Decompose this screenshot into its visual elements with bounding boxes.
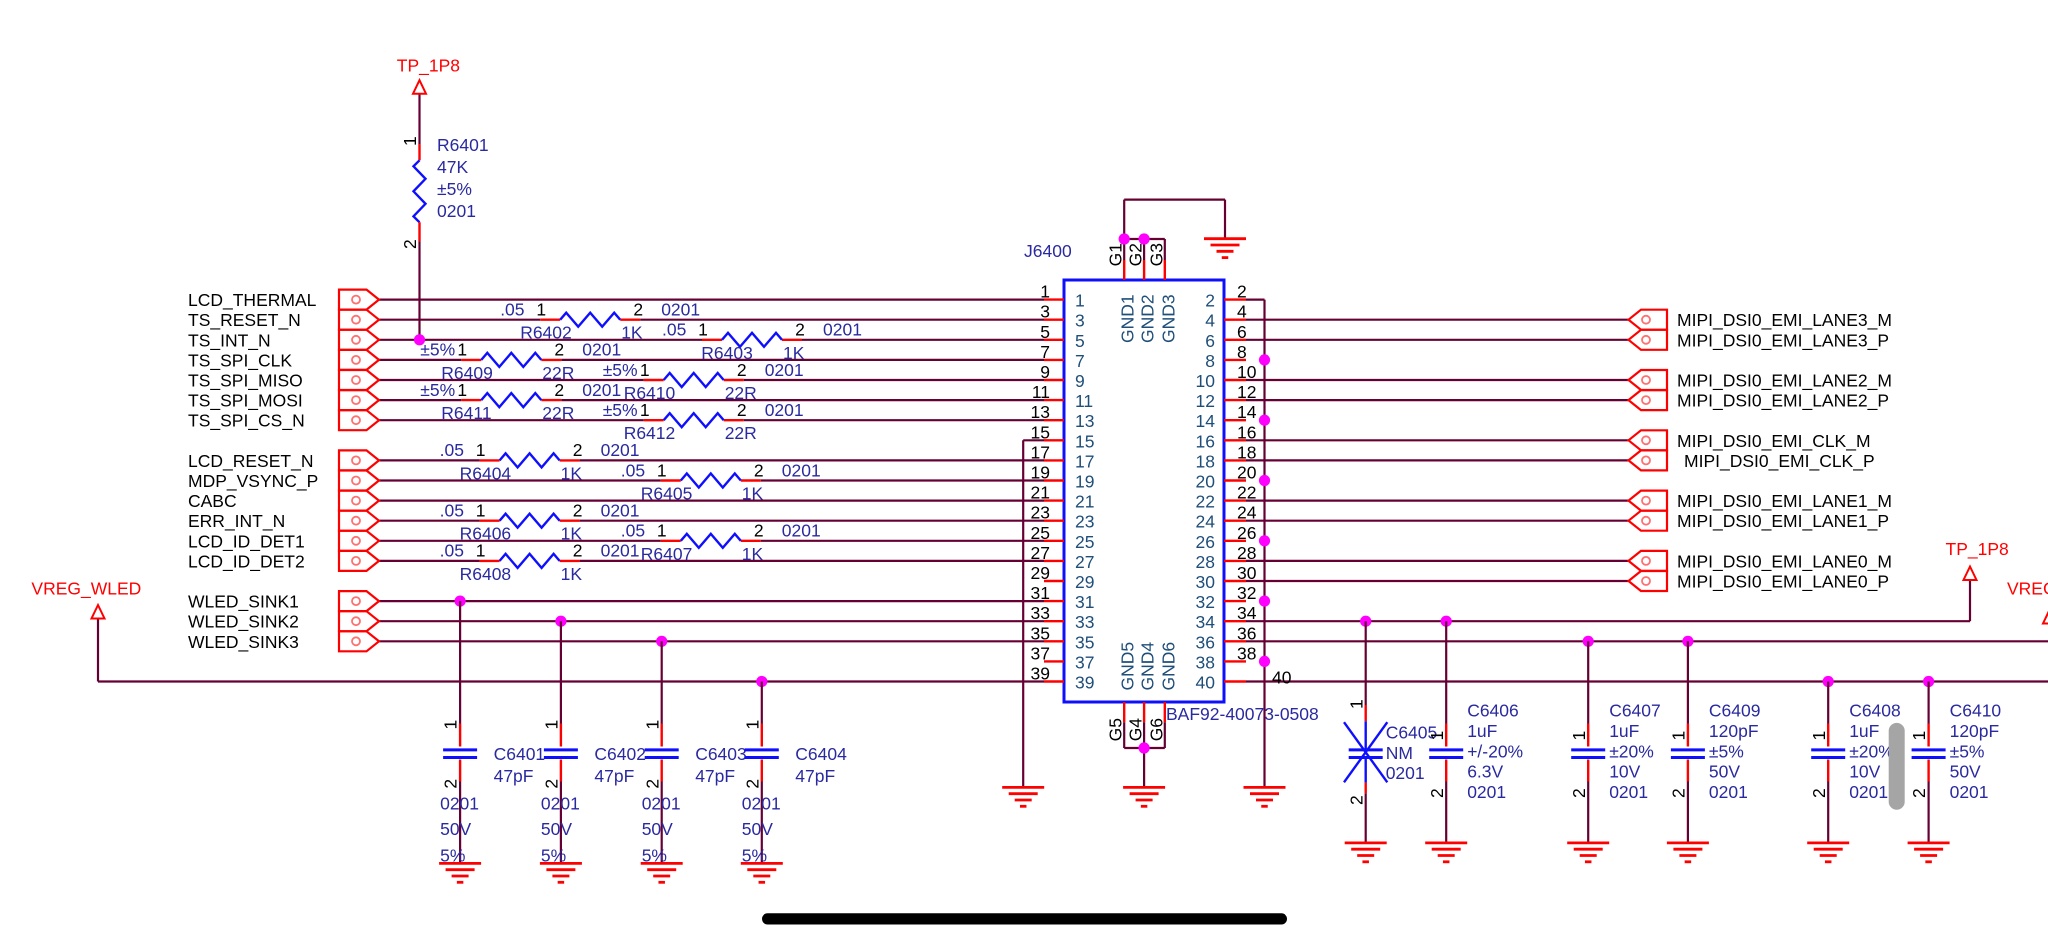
- svg-text:ERR_INT_N: ERR_INT_N: [188, 511, 285, 532]
- svg-text:120pF: 120pF: [1950, 721, 2000, 741]
- svg-text:GND4: GND4: [1138, 642, 1158, 691]
- svg-text:2: 2: [573, 440, 583, 460]
- svg-text:1: 1: [1909, 731, 1929, 741]
- svg-text:2: 2: [542, 779, 562, 789]
- svg-text:TS_SPI_MISO: TS_SPI_MISO: [188, 371, 303, 392]
- svg-text:2: 2: [573, 501, 583, 521]
- svg-text:G3: G3: [1146, 243, 1166, 266]
- svg-text:27: 27: [1075, 552, 1094, 572]
- svg-text:1: 1: [400, 136, 420, 146]
- svg-text:1: 1: [1569, 731, 1589, 741]
- svg-text:2: 2: [737, 400, 747, 420]
- svg-text:0201: 0201: [1386, 763, 1425, 783]
- svg-text:0201: 0201: [437, 201, 476, 221]
- svg-text:.05: .05: [440, 440, 464, 460]
- svg-text:50V: 50V: [642, 819, 673, 839]
- svg-text:5%: 5%: [541, 846, 566, 866]
- svg-text:6: 6: [1205, 331, 1215, 351]
- svg-text:3: 3: [1075, 311, 1085, 331]
- svg-text:38: 38: [1196, 652, 1215, 672]
- svg-text:VREG_WLED: VREG_WLED: [2007, 579, 2048, 600]
- svg-text:0201: 0201: [782, 460, 821, 480]
- svg-text:11: 11: [1075, 391, 1093, 411]
- svg-text:50V: 50V: [1950, 762, 1981, 782]
- svg-text:LCD_ID_DET1: LCD_ID_DET1: [188, 531, 305, 552]
- svg-text:MIPI_DSI0_EMI_LANE1_M: MIPI_DSI0_EMI_LANE1_M: [1677, 491, 1892, 512]
- svg-text:G6: G6: [1146, 718, 1166, 741]
- svg-text:LCD_ID_DET2: LCD_ID_DET2: [188, 551, 305, 572]
- svg-text:22R: 22R: [542, 403, 574, 423]
- svg-text:40: 40: [1272, 668, 1292, 688]
- svg-text:±5%: ±5%: [603, 360, 638, 380]
- svg-text:0201: 0201: [541, 794, 580, 814]
- svg-text:26: 26: [1237, 523, 1256, 543]
- svg-text:1: 1: [1346, 699, 1366, 709]
- svg-text:1: 1: [1040, 282, 1050, 302]
- svg-text:30: 30: [1237, 563, 1257, 583]
- svg-text:32: 32: [1196, 592, 1215, 612]
- svg-text:0201: 0201: [765, 360, 804, 380]
- svg-text:0201: 0201: [1467, 782, 1506, 802]
- svg-text:50V: 50V: [1709, 762, 1740, 782]
- svg-text:+/-20%: +/-20%: [1467, 741, 1523, 761]
- svg-text:G2: G2: [1126, 243, 1146, 266]
- svg-text:25: 25: [1031, 523, 1050, 543]
- svg-text:47pF: 47pF: [594, 766, 634, 786]
- svg-text:15: 15: [1075, 431, 1094, 451]
- svg-text:28: 28: [1196, 552, 1215, 572]
- svg-text:0201: 0201: [1709, 782, 1748, 802]
- svg-text:2: 2: [1427, 788, 1447, 798]
- svg-text:2: 2: [1669, 788, 1689, 798]
- svg-text:2: 2: [554, 340, 564, 360]
- svg-text:CABC: CABC: [188, 491, 237, 511]
- svg-text:±20%: ±20%: [1609, 741, 1654, 761]
- svg-text:9: 9: [1040, 362, 1050, 382]
- svg-text:29: 29: [1031, 563, 1050, 583]
- svg-text:3: 3: [1040, 302, 1050, 322]
- svg-text:38: 38: [1237, 643, 1256, 663]
- svg-text:1uF: 1uF: [1849, 721, 1879, 741]
- svg-text:±5%: ±5%: [420, 380, 455, 400]
- svg-text:28: 28: [1237, 543, 1256, 563]
- svg-text:50V: 50V: [742, 819, 773, 839]
- svg-text:0201: 0201: [1849, 782, 1888, 802]
- svg-text:1: 1: [742, 720, 762, 730]
- svg-text:1: 1: [476, 541, 486, 561]
- svg-text:19: 19: [1031, 463, 1050, 483]
- svg-text:10: 10: [1196, 371, 1216, 391]
- svg-text:G1: G1: [1106, 243, 1126, 266]
- svg-text:8: 8: [1205, 351, 1215, 371]
- svg-text:6.3V: 6.3V: [1467, 762, 1503, 782]
- svg-text:LCD_THERMAL: LCD_THERMAL: [188, 290, 317, 311]
- svg-text:37: 37: [1075, 652, 1094, 672]
- svg-text:14: 14: [1237, 402, 1257, 422]
- svg-text:GND1: GND1: [1118, 294, 1138, 343]
- svg-text:C6409: C6409: [1709, 701, 1761, 721]
- svg-text:40: 40: [1196, 673, 1216, 693]
- svg-text:27: 27: [1031, 543, 1050, 563]
- svg-text:47pF: 47pF: [494, 766, 534, 786]
- svg-text:34: 34: [1196, 612, 1216, 632]
- svg-text:2: 2: [742, 779, 762, 789]
- svg-text:±5%: ±5%: [1950, 741, 1985, 761]
- svg-text:16: 16: [1237, 422, 1256, 442]
- svg-text:7: 7: [1075, 351, 1085, 371]
- svg-text:22R: 22R: [725, 423, 757, 443]
- svg-text:35: 35: [1031, 623, 1050, 643]
- svg-text:MIPI_DSI0_EMI_LANE3_P: MIPI_DSI0_EMI_LANE3_P: [1677, 330, 1889, 351]
- svg-text:.05: .05: [440, 541, 464, 561]
- svg-text:BAF92-40073-0508: BAF92-40073-0508: [1166, 704, 1319, 724]
- svg-text:20: 20: [1237, 463, 1257, 483]
- svg-text:TP_1P8: TP_1P8: [1946, 539, 2009, 560]
- svg-text:0201: 0201: [601, 541, 640, 561]
- svg-text:C6403: C6403: [695, 744, 747, 764]
- svg-text:2: 2: [554, 380, 564, 400]
- svg-text:5: 5: [1075, 331, 1085, 351]
- svg-text:50V: 50V: [440, 819, 471, 839]
- svg-text:2: 2: [441, 779, 461, 789]
- svg-text:R6408: R6408: [460, 564, 512, 584]
- svg-text:VREG_WLED: VREG_WLED: [31, 579, 141, 600]
- svg-text:23: 23: [1075, 512, 1094, 532]
- svg-text:0201: 0201: [823, 320, 862, 340]
- svg-text:GND3: GND3: [1158, 294, 1178, 343]
- svg-text:4: 4: [1237, 302, 1247, 322]
- svg-text:30: 30: [1196, 572, 1216, 592]
- svg-text:J6400: J6400: [1024, 241, 1072, 261]
- svg-text:MIPI_DSI0_EMI_LANE0_P: MIPI_DSI0_EMI_LANE0_P: [1677, 572, 1889, 593]
- svg-text:WLED_SINK1: WLED_SINK1: [188, 592, 299, 613]
- svg-text:1: 1: [476, 501, 486, 521]
- svg-text:6: 6: [1237, 322, 1247, 342]
- svg-text:2: 2: [1205, 291, 1215, 311]
- svg-text:0201: 0201: [582, 380, 621, 400]
- svg-text:1: 1: [1427, 731, 1447, 741]
- svg-text:5%: 5%: [642, 846, 667, 866]
- svg-text:MIPI_DSI0_EMI_LANE0_M: MIPI_DSI0_EMI_LANE0_M: [1677, 551, 1892, 572]
- svg-text:R6407: R6407: [641, 544, 693, 564]
- svg-text:1: 1: [536, 300, 546, 320]
- svg-text:2: 2: [795, 320, 805, 340]
- svg-text:1K: 1K: [742, 484, 764, 504]
- svg-text:1: 1: [1809, 731, 1829, 741]
- svg-text:10V: 10V: [1849, 762, 1880, 782]
- svg-text:34: 34: [1237, 603, 1257, 623]
- svg-text:39: 39: [1031, 664, 1050, 684]
- svg-text:50V: 50V: [541, 819, 572, 839]
- svg-text:2: 2: [754, 460, 764, 480]
- svg-text:1K: 1K: [561, 463, 583, 483]
- svg-text:0201: 0201: [582, 340, 621, 360]
- svg-text:.05: .05: [621, 521, 645, 541]
- svg-text:MIPI_DSI0_EMI_LANE3_M: MIPI_DSI0_EMI_LANE3_M: [1677, 310, 1892, 331]
- svg-text:R6401: R6401: [437, 135, 489, 155]
- svg-text:GND6: GND6: [1158, 642, 1178, 691]
- svg-text:.05: .05: [621, 460, 645, 480]
- svg-text:0201: 0201: [601, 440, 640, 460]
- svg-text:10: 10: [1237, 362, 1257, 382]
- svg-text:5%: 5%: [440, 846, 465, 866]
- svg-text:31: 31: [1031, 583, 1050, 603]
- svg-text:TS_RESET_N: TS_RESET_N: [188, 310, 301, 331]
- svg-text:TS_INT_N: TS_INT_N: [188, 330, 271, 351]
- svg-text:C6402: C6402: [594, 744, 646, 764]
- svg-text:C6407: C6407: [1609, 701, 1661, 721]
- svg-text:2: 2: [642, 779, 662, 789]
- svg-text:23: 23: [1031, 503, 1050, 523]
- svg-text:22: 22: [1196, 492, 1215, 512]
- svg-text:37: 37: [1031, 643, 1050, 663]
- svg-text:0201: 0201: [765, 400, 804, 420]
- svg-text:2: 2: [1809, 788, 1829, 798]
- svg-text:0201: 0201: [782, 521, 821, 541]
- svg-text:31: 31: [1075, 592, 1094, 612]
- svg-text:1: 1: [476, 440, 486, 460]
- svg-text:22: 22: [1237, 483, 1256, 503]
- svg-text:25: 25: [1075, 532, 1094, 552]
- svg-text:C6408: C6408: [1849, 701, 1901, 721]
- svg-text:5: 5: [1040, 322, 1050, 342]
- svg-text:36: 36: [1237, 623, 1256, 643]
- svg-text:MIPI_DSI0_EMI_CLK_P: MIPI_DSI0_EMI_CLK_P: [1684, 451, 1875, 472]
- svg-text:C6404: C6404: [795, 744, 847, 764]
- svg-text:R6405: R6405: [641, 484, 693, 504]
- svg-text:TS_SPI_CS_N: TS_SPI_CS_N: [188, 411, 305, 432]
- svg-text:TS_SPI_MOSI: TS_SPI_MOSI: [188, 391, 303, 412]
- svg-text:9: 9: [1075, 371, 1085, 391]
- svg-text:47K: 47K: [437, 157, 468, 177]
- svg-text:TP_1P8: TP_1P8: [397, 56, 460, 77]
- svg-text:17: 17: [1031, 442, 1050, 462]
- svg-text:19: 19: [1075, 472, 1094, 492]
- svg-text:1K: 1K: [561, 564, 583, 584]
- svg-text:2: 2: [633, 300, 643, 320]
- svg-text:1: 1: [1075, 291, 1085, 311]
- svg-text:15: 15: [1031, 422, 1050, 442]
- svg-text:0201: 0201: [642, 794, 681, 814]
- svg-text:TS_SPI_CLK: TS_SPI_CLK: [188, 350, 292, 371]
- svg-text:8: 8: [1237, 342, 1247, 362]
- svg-text:0201: 0201: [601, 501, 640, 521]
- svg-text:2: 2: [573, 541, 583, 561]
- svg-text:MIPI_DSI0_EMI_LANE1_P: MIPI_DSI0_EMI_LANE1_P: [1677, 511, 1889, 532]
- svg-text:14: 14: [1196, 411, 1216, 431]
- svg-text:29: 29: [1075, 572, 1094, 592]
- svg-text:LCD_RESET_N: LCD_RESET_N: [188, 451, 313, 472]
- svg-text:0201: 0201: [440, 794, 479, 814]
- svg-text:18: 18: [1196, 451, 1215, 471]
- svg-text:0201: 0201: [742, 794, 781, 814]
- svg-text:2: 2: [1237, 282, 1247, 302]
- svg-text:±5%: ±5%: [1709, 741, 1744, 761]
- svg-text:MIPI_DSI0_EMI_LANE2_M: MIPI_DSI0_EMI_LANE2_M: [1677, 371, 1892, 392]
- svg-text:1: 1: [542, 720, 562, 730]
- svg-text:2: 2: [1346, 795, 1366, 805]
- svg-text:WLED_SINK2: WLED_SINK2: [188, 612, 299, 633]
- svg-text:120pF: 120pF: [1709, 721, 1759, 741]
- svg-text:13: 13: [1031, 402, 1050, 422]
- svg-text:0201: 0201: [1609, 782, 1648, 802]
- svg-text:1uF: 1uF: [1609, 721, 1639, 741]
- svg-text:32: 32: [1237, 583, 1256, 603]
- svg-text:2: 2: [737, 360, 747, 380]
- svg-text:.05: .05: [662, 320, 686, 340]
- svg-text:1: 1: [1669, 731, 1689, 741]
- svg-text:1: 1: [457, 380, 467, 400]
- svg-text:GND2: GND2: [1138, 294, 1158, 343]
- svg-text:C6406: C6406: [1467, 701, 1519, 721]
- svg-text:1K: 1K: [621, 323, 643, 343]
- svg-text:±5%: ±5%: [603, 400, 638, 420]
- svg-text:1: 1: [640, 400, 650, 420]
- svg-text:G4: G4: [1126, 718, 1146, 742]
- svg-text:±5%: ±5%: [437, 179, 472, 199]
- svg-text:1: 1: [657, 460, 667, 480]
- svg-text:±5%: ±5%: [420, 340, 455, 360]
- svg-text:33: 33: [1075, 612, 1094, 632]
- svg-text:20: 20: [1196, 472, 1216, 492]
- svg-text:MDP_VSYNC_P: MDP_VSYNC_P: [188, 471, 318, 492]
- svg-text:21: 21: [1075, 492, 1094, 512]
- svg-text:1: 1: [698, 320, 708, 340]
- svg-text:2: 2: [400, 239, 420, 249]
- svg-text:11: 11: [1032, 382, 1050, 402]
- svg-text:1: 1: [640, 360, 650, 380]
- svg-text:17: 17: [1075, 451, 1094, 471]
- svg-text:13: 13: [1075, 411, 1094, 431]
- svg-text:26: 26: [1196, 532, 1215, 552]
- svg-text:12: 12: [1196, 391, 1215, 411]
- svg-text:5%: 5%: [742, 846, 767, 866]
- svg-text:47pF: 47pF: [795, 766, 835, 786]
- svg-text:1K: 1K: [742, 544, 764, 564]
- svg-text:1: 1: [657, 521, 667, 541]
- svg-text:47pF: 47pF: [695, 766, 735, 786]
- svg-text:G5: G5: [1106, 718, 1126, 741]
- svg-text:C6401: C6401: [494, 744, 546, 764]
- svg-text:C6410: C6410: [1950, 701, 2002, 721]
- svg-text:.05: .05: [440, 501, 464, 521]
- svg-text:R6404: R6404: [460, 463, 512, 483]
- svg-text:±20%: ±20%: [1849, 741, 1894, 761]
- svg-text:7: 7: [1040, 342, 1050, 362]
- svg-text:4: 4: [1205, 311, 1215, 331]
- svg-text:16: 16: [1196, 431, 1215, 451]
- svg-text:39: 39: [1075, 673, 1094, 693]
- svg-text:1: 1: [457, 340, 467, 360]
- svg-text:36: 36: [1196, 632, 1215, 652]
- svg-text:WLED_SINK3: WLED_SINK3: [188, 632, 299, 653]
- svg-text:1uF: 1uF: [1467, 721, 1497, 741]
- svg-text:12: 12: [1237, 382, 1256, 402]
- svg-text:R6411: R6411: [441, 403, 491, 423]
- svg-text:2: 2: [1569, 788, 1589, 798]
- svg-text:24: 24: [1237, 503, 1257, 523]
- svg-text:1: 1: [642, 720, 662, 730]
- svg-text:35: 35: [1075, 632, 1094, 652]
- svg-text:10V: 10V: [1609, 762, 1640, 782]
- svg-text:33: 33: [1031, 603, 1050, 623]
- svg-text:0201: 0201: [1950, 782, 1989, 802]
- svg-text:24: 24: [1196, 512, 1216, 532]
- svg-text:.05: .05: [500, 300, 524, 320]
- svg-text:NM: NM: [1386, 743, 1413, 763]
- svg-text:18: 18: [1237, 442, 1256, 462]
- svg-text:GND5: GND5: [1118, 642, 1138, 691]
- svg-text:MIPI_DSI0_EMI_LANE2_P: MIPI_DSI0_EMI_LANE2_P: [1677, 391, 1889, 412]
- svg-text:0201: 0201: [661, 300, 700, 320]
- svg-text:1: 1: [441, 720, 461, 730]
- svg-text:21: 21: [1031, 483, 1050, 503]
- svg-text:2: 2: [1909, 788, 1929, 798]
- svg-text:MIPI_DSI0_EMI_CLK_M: MIPI_DSI0_EMI_CLK_M: [1677, 431, 1871, 452]
- svg-text:2: 2: [754, 521, 764, 541]
